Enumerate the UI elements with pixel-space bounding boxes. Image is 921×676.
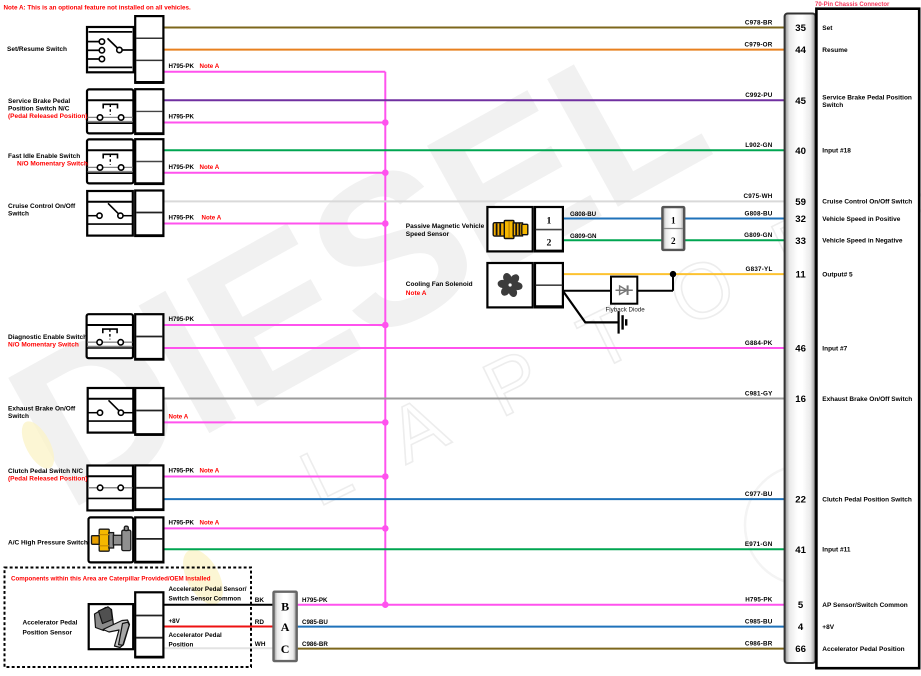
svg-text:Diagnostic Enable Switch: Diagnostic Enable Switch — [8, 334, 87, 341]
svg-text:C981-GY: C981-GY — [745, 390, 773, 397]
svg-text:Passive Magnetic Vehicle: Passive Magnetic Vehicle — [406, 223, 485, 230]
svg-text:Note A: Note A — [200, 164, 220, 171]
svg-text:B: B — [281, 599, 289, 613]
svg-text:C977-BU: C977-BU — [745, 491, 773, 498]
svg-text:32: 32 — [795, 214, 806, 225]
svg-text:4: 4 — [798, 622, 804, 633]
svg-text:A: A — [281, 620, 290, 634]
svg-text:Components within this Area ar: Components within this Area are Caterpil… — [11, 576, 211, 583]
svg-text:Position: Position — [169, 642, 194, 649]
svg-text:L902-GN: L902-GN — [745, 142, 773, 149]
svg-text:G808-BU: G808-BU — [745, 210, 773, 217]
svg-text:C985-BU: C985-BU — [302, 619, 328, 626]
svg-text:C: C — [281, 642, 290, 656]
svg-text:Cruise Control On/Off Switch: Cruise Control On/Off Switch — [822, 199, 912, 206]
svg-text:59: 59 — [795, 197, 806, 208]
svg-text:H795-PK: H795-PK — [169, 114, 195, 121]
svg-text:Clutch Pedal Switch N/C: Clutch Pedal Switch N/C — [8, 468, 83, 475]
svg-text:G837-YL: G837-YL — [746, 266, 773, 273]
svg-text:AP Sensor/Switch Common: AP Sensor/Switch Common — [822, 602, 908, 609]
svg-text:+8V: +8V — [169, 618, 181, 625]
svg-text:Service Brake Pedal: Service Brake Pedal — [8, 98, 70, 105]
svg-text:WH: WH — [255, 641, 266, 648]
svg-text:+8V: +8V — [822, 624, 834, 631]
svg-text:1: 1 — [671, 216, 676, 226]
svg-text:H795-PK: H795-PK — [169, 316, 195, 323]
svg-text:C975-WH: C975-WH — [743, 193, 772, 200]
svg-text:E971-GN: E971-GN — [745, 541, 773, 548]
svg-text:2: 2 — [547, 238, 552, 249]
svg-text:Output# 5: Output# 5 — [822, 271, 853, 278]
svg-text:46: 46 — [795, 344, 806, 355]
svg-text:Speed Sensor: Speed Sensor — [406, 231, 450, 238]
svg-text:(Pedal Released Position): (Pedal Released Position) — [8, 476, 87, 483]
svg-text:H795-PK: H795-PK — [169, 164, 195, 171]
svg-text:Position Switch N/C: Position Switch N/C — [8, 105, 70, 112]
svg-text:Note A: Note A — [202, 215, 222, 222]
svg-text:Input #18: Input #18 — [822, 148, 851, 155]
svg-text:C992-PU: C992-PU — [745, 92, 773, 99]
svg-text:G809-GN: G809-GN — [744, 232, 773, 239]
svg-text:Accelerator Pedal: Accelerator Pedal — [23, 619, 78, 626]
svg-text:Input #11: Input #11 — [822, 547, 851, 554]
svg-text:Accelerator Pedal Sensor/: Accelerator Pedal Sensor/ — [169, 586, 247, 593]
svg-text:22: 22 — [795, 495, 806, 506]
svg-text:Note A: Note A — [200, 468, 220, 475]
svg-text:C986-BR: C986-BR — [745, 640, 773, 647]
svg-text:35: 35 — [795, 23, 806, 34]
svg-text:H795-PK: H795-PK — [745, 597, 773, 604]
svg-text:Switch: Switch — [8, 210, 29, 217]
svg-text:H795-PK: H795-PK — [302, 597, 328, 604]
svg-text:Note A: Note A — [200, 63, 220, 70]
svg-text:Note A: Note A — [406, 290, 427, 297]
svg-text:A/C High Pressure Switch: A/C High Pressure Switch — [8, 540, 88, 547]
svg-text:H795-PK: H795-PK — [169, 63, 195, 70]
svg-text:Exhaust Brake On/Off: Exhaust Brake On/Off — [8, 406, 76, 413]
svg-text:(Pedal Released Position): (Pedal Released Position) — [8, 113, 87, 120]
svg-text:H795-PK: H795-PK — [169, 520, 195, 527]
svg-text:Accelerator Pedal Position: Accelerator Pedal Position — [822, 646, 904, 653]
svg-text:BK: BK — [255, 597, 265, 604]
svg-text:Set/Resume Switch: Set/Resume Switch — [7, 46, 67, 53]
svg-text:66: 66 — [795, 644, 806, 655]
svg-text:33: 33 — [795, 236, 806, 247]
svg-text:G884-PK: G884-PK — [745, 340, 773, 347]
svg-text:44: 44 — [795, 45, 806, 56]
svg-text:Exhaust Brake On/Off Switch: Exhaust Brake On/Off Switch — [822, 396, 912, 403]
svg-text:41: 41 — [795, 545, 806, 556]
svg-text:Input #7: Input #7 — [822, 345, 847, 352]
svg-text:5: 5 — [798, 600, 804, 611]
svg-text:Switch: Switch — [822, 102, 843, 109]
svg-text:2: 2 — [671, 236, 676, 246]
svg-text:Cruise Control On/Off: Cruise Control On/Off — [8, 203, 76, 210]
svg-text:G808-BU: G808-BU — [570, 211, 597, 218]
svg-text:C985-BU: C985-BU — [745, 618, 773, 625]
svg-text:C979-OR: C979-OR — [745, 41, 773, 48]
svg-text:H795-PK: H795-PK — [169, 468, 195, 475]
svg-text:45: 45 — [795, 96, 806, 107]
svg-text:70-Pin Chassis Connector: 70-Pin Chassis Connector — [815, 2, 890, 8]
svg-text:11: 11 — [796, 270, 807, 281]
svg-text:Fast Idle Enable Switch: Fast Idle Enable Switch — [8, 153, 80, 160]
svg-text:RD: RD — [255, 619, 265, 626]
svg-text:Accelerator Pedal: Accelerator Pedal — [169, 632, 222, 639]
svg-text:16: 16 — [795, 394, 806, 405]
svg-text:N/O Momentary Switch: N/O Momentary Switch — [8, 341, 79, 348]
svg-text:40: 40 — [795, 146, 806, 157]
svg-text:Switch Sensor Common: Switch Sensor Common — [169, 596, 242, 603]
svg-text:Note A: This is an optional fe: Note A: This is an optional feature not … — [4, 5, 192, 12]
svg-text:Note A: Note A — [200, 520, 220, 527]
svg-text:Note A: Note A — [169, 414, 189, 421]
svg-text:H795-PK: H795-PK — [169, 215, 195, 222]
svg-text:Clutch Pedal Position Switch: Clutch Pedal Position Switch — [822, 496, 912, 503]
svg-text:N/O Momentary Switch: N/O Momentary Switch — [17, 161, 88, 168]
svg-text:Switch: Switch — [8, 413, 29, 420]
svg-text:1: 1 — [547, 216, 552, 227]
svg-text:Resume: Resume — [822, 47, 848, 54]
svg-text:Cooling Fan Solenoid: Cooling Fan Solenoid — [406, 281, 473, 288]
svg-text:Position Sensor: Position Sensor — [23, 629, 73, 636]
svg-text:Set: Set — [822, 25, 833, 32]
svg-text:C978-BR: C978-BR — [745, 19, 773, 26]
svg-text:Vehicle Speed in Negative: Vehicle Speed in Negative — [822, 238, 903, 245]
svg-text:C986-BR: C986-BR — [302, 641, 328, 648]
svg-text:Vehicle Speed in Positive: Vehicle Speed in Positive — [822, 216, 900, 223]
svg-text:Flyback Diode: Flyback Diode — [606, 307, 646, 314]
svg-text:G809-GN: G809-GN — [570, 233, 597, 240]
svg-text:Service Brake Pedal Position: Service Brake Pedal Position — [822, 94, 912, 101]
